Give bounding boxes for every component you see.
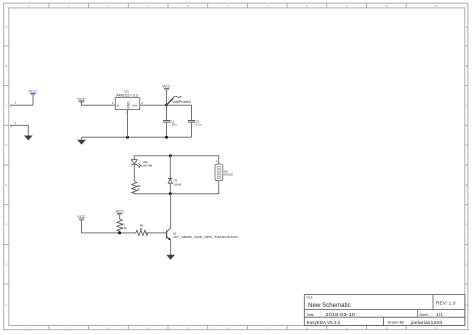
LED LED1 LED-3MM (131, 160, 152, 182)
svg-text:GND: GND (126, 101, 130, 109)
svg-text:E: E (466, 183, 468, 187)
connector P1 pin 1 (10, 101, 17, 109)
power flag VCC P1 (blue) (29, 89, 38, 105)
power flag VCC (U1 input) (77, 97, 86, 102)
svg-text:joelarias1204: joelarias1204 (409, 320, 443, 325)
ground GND (P1 pin2) (24, 136, 33, 141)
resistor R3 1k (132, 181, 141, 194)
svg-text:TITLE:: TITLE: (306, 296, 313, 300)
ground GND (emitter) (166, 255, 175, 260)
svg-text:Sheet:: Sheet: (420, 313, 429, 317)
svg-text:VoltProbe1: VoltProbe1 (172, 100, 191, 104)
diode U3 1N4148 (168, 156, 181, 194)
resistor R2 1k (136, 223, 148, 235)
svg-text:VCC: VCC (116, 210, 125, 214)
junction C1 on rail (165, 136, 168, 139)
junction node OUT (165, 104, 168, 107)
svg-text:In: In (117, 103, 120, 107)
wire VCC to base node (82, 220, 137, 233)
svg-text:Date:: Date: (307, 313, 315, 317)
svg-text:H: H (466, 303, 468, 307)
power flag VCC (base feed) (77, 215, 86, 221)
transistor U2 J3Y_S8050_SMD_NPN_TRANSISTOR (167, 228, 239, 240)
connector P1 pin 2 (10, 121, 17, 129)
svg-text:J3Y_S8050_SMD_NPN_TRANSISTOR: J3Y_S8050_SMD_NPN_TRANSISTOR (173, 235, 239, 239)
svg-text:11: 11 (434, 326, 437, 330)
voltage probe VoltProbe1 (167, 96, 192, 105)
wire SW1 to bottom rail (134, 181, 218, 194)
svg-text:A: A (466, 25, 468, 29)
regulator U1 AMS1117-3.3 (111, 90, 143, 115)
svg-text:Out: Out (132, 103, 137, 107)
wire U1 GND pin to rail (127, 114, 129, 138)
svg-text:H: H (5, 303, 7, 307)
wire pin2 to ground (15, 125, 29, 135)
svg-text:DRAD(H)LSGET: DRAD(H)LSGET (224, 174, 234, 177)
svg-text:F: F (5, 223, 7, 227)
wire VCC to U1 In (82, 102, 112, 105)
power flag VCC (R1) (116, 210, 125, 220)
wire pin1 to VCC flag (15, 104, 34, 106)
svg-text:A: A (5, 25, 7, 29)
svg-text:3.3k: 3.3k (121, 226, 127, 230)
svg-text:AMS1117-3.3: AMS1117-3.3 (116, 93, 138, 97)
svg-text:VCC: VCC (77, 215, 86, 219)
svg-text:REV: 1.0: REV: 1.0 (436, 301, 456, 306)
capacitor C2 0.1u (188, 119, 202, 137)
svg-text:E: E (5, 183, 7, 187)
wire R2 to base (146, 232, 167, 234)
wire ground rail (82, 136, 192, 138)
svg-text:11: 11 (434, 4, 437, 8)
ground GND (rail) (77, 137, 86, 144)
wire LED top rail (134, 156, 218, 164)
resistor R1 3.3k (117, 219, 127, 233)
wire node OUT to C2 branch (167, 105, 192, 120)
svg-text:10u: 10u (172, 123, 178, 127)
svg-text:1/1: 1/1 (436, 312, 443, 317)
wire emitter to ground (170, 240, 172, 255)
svg-text:2018-03-10: 2018-03-10 (325, 312, 355, 318)
svg-text:10: 10 (385, 326, 389, 330)
wire U1 Out to node OUT (144, 104, 167, 106)
svg-text:EasyEDA V5.3.2: EasyEDA V5.3.2 (307, 320, 341, 325)
svg-text:LED-3MM: LED-3MM (143, 164, 152, 168)
svg-text:F: F (466, 223, 468, 227)
svg-text:0.1u: 0.1u (196, 123, 202, 127)
junction U1 GND on rail (126, 136, 129, 139)
switch SW1 (215, 160, 233, 186)
wire collector (170, 194, 172, 229)
title block (304, 295, 465, 326)
svg-text:1N4148: 1N4148 (174, 182, 182, 186)
svg-text:B: B (5, 64, 7, 68)
svg-text:1k: 1k (137, 187, 140, 191)
svg-text:SW1: SW1 (224, 169, 229, 173)
svg-text:10: 10 (385, 4, 389, 8)
svg-text:B: B (466, 64, 468, 68)
junction bottom rail / collector (169, 192, 172, 195)
svg-text:Drawn By:: Drawn By: (388, 321, 406, 325)
svg-text:VCC: VCC (162, 85, 171, 89)
svg-text:New Schematic: New Schematic (308, 302, 351, 309)
junction U3 top on LED rail (169, 154, 172, 157)
capacitor C1 10u (163, 105, 177, 137)
svg-text:VCC: VCC (29, 89, 38, 93)
junction R1 / base wire (118, 231, 121, 234)
power flag VCC (3.3V rail) (162, 85, 171, 105)
svg-text:+: + (216, 160, 218, 164)
